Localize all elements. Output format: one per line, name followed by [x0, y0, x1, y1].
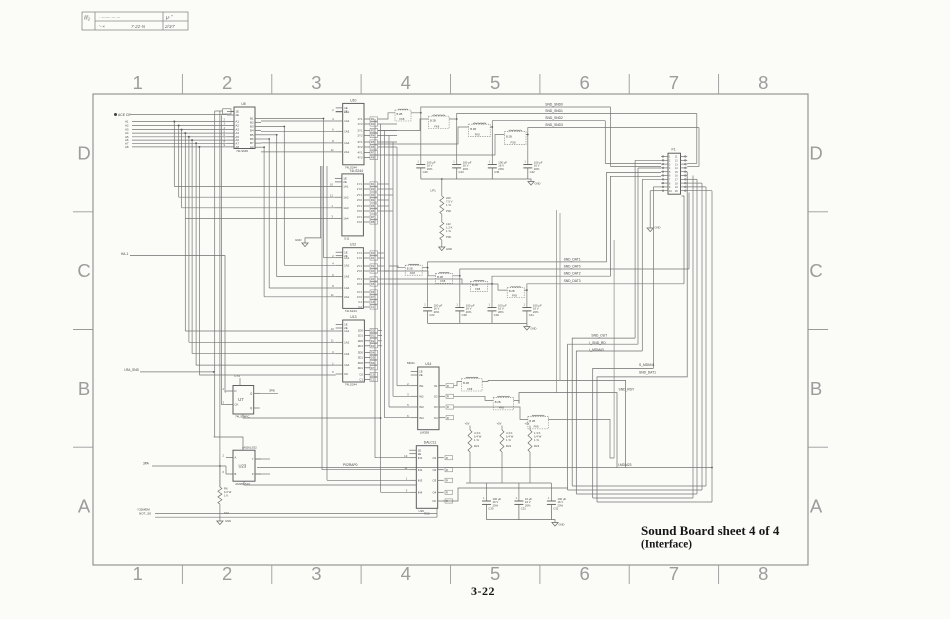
svg-text:2E: 2E: [344, 254, 348, 258]
svg-text:SND_SND0: SND_SND0: [545, 102, 563, 106]
svg-text:O3: O3: [432, 478, 436, 482]
svg-text:GND: GND: [295, 238, 301, 242]
bus staircase junction dots: [173, 121, 200, 148]
capacitor C32: [547, 496, 567, 520]
capacitor C40: [488, 302, 508, 323]
svg-text:1A2: 1A2: [343, 195, 349, 199]
svg-text:1 %: 1 %: [534, 438, 539, 442]
grid column ticks bottom: [182, 565, 718, 584]
svg-text:4D1: 4D1: [358, 366, 364, 370]
svg-text:· –·— ·– ·–: · –·— ·– ·–: [99, 15, 121, 20]
svg-text:LM358: LM358: [420, 430, 430, 434]
svg-text:1 %: 1 %: [446, 203, 451, 207]
svg-text:C31: C31: [521, 507, 527, 511]
wire IC U30 to bottom lines: [436, 508, 438, 517]
svg-text:CK: CK: [432, 499, 436, 503]
svg-text:R4: R4: [371, 134, 375, 138]
svg-text:+5V: +5V: [465, 422, 470, 426]
ground LP1: [439, 247, 445, 251]
resistor in LP1 chain lower: [440, 222, 444, 240]
svg-text:IN1: IN1: [419, 384, 424, 388]
crossing vertical A: [556, 210, 558, 393]
svg-text:SND_SND1: SND_SND1: [545, 109, 563, 113]
wire SND_DAT2 riser: [610, 176, 661, 276]
svg-text:C: C: [809, 260, 822, 281]
svg-text:C26: C26: [423, 170, 429, 174]
svg-text:1A3: 1A3: [344, 129, 350, 133]
svg-text:GND: GND: [535, 182, 541, 186]
wire SND_DAT1 riser: [607, 173, 662, 262]
svg-text:1Y1: 1Y1: [357, 117, 363, 121]
I-RA_SND wire: [140, 371, 214, 373]
ground of middle capacitor rail: [526, 323, 528, 326]
svg-text:SND_OUT: SND_OUT: [591, 333, 607, 337]
middle riser junction dots: [427, 267, 528, 291]
revision block handwriting: [83, 15, 175, 29]
svg-text:O2: O2: [434, 394, 438, 398]
svg-text:B: B: [810, 378, 822, 399]
svg-text:1Y2: 1Y2: [357, 256, 363, 260]
svg-text:4Y2: 4Y2: [357, 220, 363, 224]
svg-text:U23: U23: [239, 463, 247, 468]
svg-text:I_MDM43: I_MDM43: [589, 348, 604, 352]
svg-text:+5V: +5V: [525, 422, 530, 426]
IC U23: [222, 450, 261, 486]
svg-text:B: B: [234, 472, 236, 476]
Y32MEM wire: [155, 513, 437, 515]
output bus verticals: [375, 119, 397, 492]
nested loop 2 left vertical: [637, 168, 639, 344]
IC U30 bottom wire: [443, 488, 568, 501]
ferrite-bead filter FB8: [507, 287, 524, 298]
svg-text:D1: D1: [371, 256, 375, 260]
svg-text:74LS244: 74LS244: [345, 383, 357, 387]
svg-text:I-RA_SND: I-RA_SND: [124, 368, 140, 372]
top capacitor riser dots: [420, 112, 529, 136]
svg-text:D3: D3: [371, 344, 375, 348]
svg-text:R8: R8: [371, 156, 375, 160]
wire SND_SND3 drop: [698, 128, 700, 167]
IC U12: [331, 243, 370, 313]
ferrite-bead filter FB7: [471, 280, 488, 291]
svg-text:I-MDM23: I-MDM23: [618, 463, 632, 467]
svg-text:LP1: LP1: [431, 189, 437, 193]
ferrite-bead filter FB10: [493, 396, 514, 410]
svg-text:A: A: [78, 496, 91, 517]
svg-text:C22: C22: [429, 313, 435, 317]
svg-text:MR11: MR11: [407, 361, 415, 365]
resistor trio bottom rail: [466, 482, 551, 484]
svg-text:1A4: 1A4: [344, 286, 350, 290]
capacitor C41: [522, 302, 542, 323]
svg-text:11: 11: [331, 293, 334, 297]
svg-text:U13: U13: [350, 315, 356, 319]
svg-text:A8: A8: [125, 145, 129, 149]
svg-text:1A2: 1A2: [344, 119, 350, 123]
ferrite-bead filter FB9: [462, 377, 483, 391]
IC DALC11: [404, 441, 444, 513]
svg-text:D2: D2: [371, 339, 375, 343]
capacitor C30: [482, 496, 502, 520]
ground stub near IC column: [305, 166, 321, 243]
svg-text:SND_DAT2: SND_DAT2: [564, 272, 581, 276]
right loop vertical from pin 20: [711, 191, 713, 502]
U7 right output wire: [254, 392, 278, 394]
svg-text:A8: A8: [235, 145, 239, 149]
svg-text:R: R: [447, 395, 449, 399]
top filter inputs: [378, 113, 505, 155]
svg-text:1A3: 1A3: [344, 352, 350, 356]
top filter outputs to SND_SND lines: [411, 107, 699, 135]
svg-text:13: 13: [404, 454, 408, 458]
U7 top pin: [239, 378, 241, 386]
nested loop 3 left vertical: [641, 179, 643, 351]
svg-text:R7: R7: [371, 151, 375, 155]
svg-text:FS8: FS8: [511, 141, 516, 145]
bottom capacitor risers: [487, 483, 552, 501]
svg-text:U11: U11: [344, 237, 350, 241]
svg-text:R1: R1: [371, 117, 375, 121]
svg-text:4: 4: [401, 72, 411, 93]
svg-text:2Y1: 2Y1: [357, 129, 363, 133]
svg-text:B 2B: B 2B: [509, 289, 515, 293]
top capacitor ground rail: [421, 178, 528, 180]
bus staircase drop wires: [174, 122, 199, 376]
svg-text:13: 13: [331, 327, 335, 331]
IC U7: [222, 386, 259, 419]
svg-text:2E: 2E: [344, 326, 348, 330]
svg-text:P02RAP0: P02RAP0: [343, 463, 358, 467]
svg-text:7: 7: [669, 563, 679, 584]
middle filter outputs to SND_DAT lines: [422, 262, 689, 290]
svg-text:3Y1: 3Y1: [357, 140, 363, 144]
svg-text:O4: O4: [434, 416, 438, 420]
long wire y380: [488, 380, 626, 467]
svg-text:R7: R7: [371, 215, 375, 219]
svg-text:B 2B: B 2B: [506, 134, 512, 138]
svg-text:1 %: 1 %: [506, 438, 511, 442]
svg-text:IN2: IN2: [419, 394, 424, 398]
svg-text:SND_RDY: SND_RDY: [619, 388, 636, 392]
U5 to IC3 staircase verticals: [264, 119, 336, 297]
svg-text:C40: C40: [494, 313, 500, 317]
svg-text:D0: D0: [371, 329, 375, 333]
svg-text:1Y2: 1Y2: [357, 187, 363, 191]
svg-text:FK8: FK8: [475, 287, 480, 291]
svg-text:IN4: IN4: [419, 416, 424, 420]
svg-text:1: 1: [133, 563, 143, 584]
svg-text:R: R: [446, 456, 448, 460]
svg-text:C43: C43: [459, 170, 465, 174]
middle filter inputs: [385, 266, 508, 290]
svg-text:R6: R6: [371, 209, 375, 213]
svg-text:2Y1: 2Y1: [357, 193, 363, 197]
wire LP1 middle: [441, 214, 443, 222]
svg-text:4Y1: 4Y1: [357, 290, 363, 294]
nested loop 1 left vertical: [634, 160, 636, 338]
wires to U30 left pins: [322, 458, 409, 493]
capacitor C26: [416, 159, 436, 179]
svg-text:7: 7: [669, 72, 679, 93]
svg-text:SND_DAT0: SND_DAT0: [564, 264, 581, 268]
svg-text:SND_DAT1: SND_DAT1: [639, 371, 656, 375]
grid column ticks top: [182, 74, 718, 94]
svg-text:2Y1: 2Y1: [357, 264, 363, 268]
svg-text:FK8: FK8: [499, 406, 504, 410]
svg-text:1A3: 1A3: [344, 275, 350, 279]
svg-text:C: C: [77, 260, 90, 281]
wires from bus to IC2 left pins: [174, 187, 335, 219]
svg-text:μ·’’: μ·’’: [165, 15, 173, 21]
svg-text:2/3⁄7: 2/3⁄7: [164, 24, 175, 29]
svg-text:D5: D5: [371, 356, 375, 360]
svg-text:3Y2: 3Y2: [357, 145, 363, 149]
svg-text:R6: R6: [371, 145, 375, 149]
connector feeder rail lower right: [687, 166, 699, 168]
svg-text:C1: C1: [359, 378, 363, 382]
wire SND_SND0 drop: [610, 107, 612, 167]
svg-text:C74: C74: [234, 374, 240, 378]
connector feeder rail upper right: [687, 163, 697, 165]
revision title block: [82, 12, 188, 30]
ground below connector: [649, 191, 651, 228]
svg-text:R: R: [447, 405, 449, 409]
svg-text:1: 1: [133, 72, 143, 93]
connector F1: [661, 148, 687, 195]
svg-text:IN2: IN2: [418, 468, 423, 472]
svg-text:11: 11: [331, 148, 334, 152]
svg-text:B 2B: B 2B: [472, 283, 478, 287]
IC U12 output stub labels: [370, 251, 378, 255]
ferrite-bead filter FB11: [528, 415, 549, 429]
nested loop 4 left vertical: [652, 187, 654, 369]
lower filter output wires: [482, 380, 614, 458]
wires from bus to IC4 left pins: [185, 331, 335, 365]
svg-text:6A0: 6A0: [224, 511, 229, 515]
svg-text:P02: P02: [446, 209, 451, 213]
IC U14 output stub resistors: [446, 384, 454, 388]
svg-text:U10: U10: [350, 98, 356, 102]
svg-text:1 %: 1 %: [446, 229, 451, 233]
svg-text:5: 5: [490, 72, 500, 93]
svg-text:7-22-N: 7-22-N: [131, 24, 146, 29]
svg-text:B 2B: B 2B: [495, 400, 501, 404]
U7 lower output wire: [243, 414, 381, 418]
svg-text:6: 6: [579, 72, 589, 93]
svg-text:U12: U12: [350, 243, 356, 247]
right loop vertical mid: [696, 179, 698, 494]
IC U5: [223, 102, 261, 153]
svg-text:’–×: ’–×: [99, 24, 105, 29]
svg-text:74LS244: 74LS244: [345, 309, 357, 313]
svg-text:1Y2: 1Y2: [357, 122, 363, 126]
svg-text:U14: U14: [425, 362, 431, 366]
svg-text:CK: CK: [344, 372, 348, 376]
long horizontal P02RAP0 I-MDM23 line: [257, 467, 712, 469]
U23 top pin wire: [214, 437, 243, 450]
wire SND_SND2 drop: [604, 121, 606, 164]
U23 bottom pin wire: [244, 481, 416, 485]
svg-text:2A1: 2A1: [344, 150, 350, 154]
svg-text:B8: B8: [250, 145, 254, 149]
svg-text:1A2: 1A2: [344, 340, 350, 344]
wires IC outputs to bus verticals: [378, 124, 397, 346]
wire SND_DAT0 riser: [688, 193, 690, 270]
svg-text:1D0: 1D0: [358, 329, 364, 333]
svg-text:2D0: 2D0: [358, 339, 364, 343]
svg-text:D5: D5: [371, 282, 375, 286]
svg-text:C45: C45: [494, 170, 500, 174]
svg-text:S_MDM41: S_MDM41: [639, 363, 655, 367]
svg-text:SND_DAT3: SND_DAT3: [564, 279, 581, 283]
capacitor C42: [523, 159, 543, 179]
HA-1 wire: [130, 256, 226, 392]
IC U13: [331, 315, 371, 387]
svg-text:C42: C42: [530, 170, 536, 174]
svg-text:CK: CK: [371, 300, 375, 304]
grid column numbers top: [133, 72, 769, 93]
svg-text:3Y2: 3Y2: [357, 282, 363, 286]
top capacitor risers: [421, 113, 528, 165]
middle capacitor ground rail: [428, 322, 527, 324]
svg-text:Z: Z: [252, 472, 254, 476]
wires to U14 left pins: [385, 386, 411, 418]
svg-text:D: D: [77, 142, 90, 163]
staircase SND_DAT1: [597, 172, 687, 502]
svg-text:FK8: FK8: [410, 271, 415, 275]
IC U13 output stub labels: [370, 328, 378, 332]
svg-text:1A4: 1A4: [344, 363, 350, 367]
svg-text:2Y2: 2Y2: [357, 134, 363, 138]
svg-text:C30: C30: [488, 507, 494, 511]
U7 left feed wires: [221, 404, 226, 406]
IC U10 output stub labels: [121, 102, 713, 526]
ferrite-bead filter FB4: [505, 130, 527, 145]
svg-text:D: D: [809, 142, 822, 163]
svg-text:2Y2: 2Y2: [357, 198, 363, 202]
svg-text:GND: GND: [559, 523, 565, 527]
svg-text:10: 10: [330, 183, 334, 187]
svg-text:5: 5: [490, 563, 500, 584]
svg-text:DALC11: DALC11: [424, 441, 437, 445]
svg-text:3: 3: [311, 563, 321, 584]
svg-text:D4: D4: [371, 277, 375, 281]
svg-text:3PA: 3PA: [143, 461, 150, 465]
svg-text:C1: C1: [371, 378, 375, 382]
svg-text:1A4: 1A4: [344, 141, 350, 145]
IC 74LS244: [330, 169, 370, 241]
R6 lower wire: [219, 504, 221, 521]
connector left pin wires to loop verticals: [635, 160, 661, 190]
svg-text:11: 11: [330, 193, 333, 197]
IC U10: [331, 98, 370, 169]
3PA wire: [152, 465, 226, 467]
svg-text:SND_SND3: SND_SND3: [545, 123, 563, 127]
wire bus line A8 to IC6 area: [199, 374, 335, 376]
svg-text:B 2B: B 2B: [397, 112, 403, 116]
capacitor C43: [452, 159, 472, 179]
ferrite-bead filter FB6: [436, 272, 453, 283]
IC U11 output stub labels: [370, 182, 378, 186]
svg-text:R: R: [447, 416, 449, 420]
drawing frame border: [93, 94, 808, 565]
svg-text:FK8: FK8: [399, 117, 404, 121]
lower filter input wires: [454, 382, 528, 420]
svg-text:AM26LS32: AM26LS32: [242, 446, 257, 450]
svg-text:C2: C2: [358, 305, 362, 309]
svg-text:O2: O2: [432, 468, 436, 472]
svg-text:1D1: 1D1: [358, 334, 364, 338]
svg-text:D3: D3: [371, 269, 375, 273]
svg-text:B 2B: B 2B: [470, 127, 476, 131]
svg-text:A: A: [234, 456, 236, 460]
svg-text:R: R: [446, 479, 448, 483]
svg-text:GND: GND: [531, 327, 537, 331]
svg-text:O1: O1: [432, 456, 436, 460]
svg-text:R5: R5: [371, 204, 375, 208]
ferrite-bead filter FB3: [469, 123, 491, 137]
svg-text:2Y2: 2Y2: [357, 269, 363, 273]
wire LP1 bottom: [441, 240, 443, 247]
svg-text:D4: D4: [371, 351, 375, 355]
svg-text:4Y2: 4Y2: [357, 295, 363, 299]
svg-text:R1: R1: [371, 182, 375, 186]
svg-text:B: B: [78, 378, 90, 399]
svg-text:3Y1: 3Y1: [357, 204, 363, 208]
svg-text:2: 2: [222, 563, 232, 584]
svg-text:D: D: [234, 389, 236, 393]
svg-text:C32: C32: [553, 507, 559, 511]
R6 top connection wire: [219, 466, 221, 487]
svg-text:R2: R2: [371, 187, 375, 191]
long feeder vertical to U30 pin 2: [321, 166, 323, 470]
middle capacitor risers: [428, 268, 527, 308]
connector feeder rail lower left: [611, 166, 662, 168]
crossing vertical B: [559, 213, 561, 380]
svg-text:P00: P00: [446, 235, 451, 239]
svg-text:GND: GND: [225, 519, 231, 523]
svg-text:IN3: IN3: [418, 478, 423, 482]
svg-text:R3: R3: [371, 193, 375, 197]
svg-text:74LS645: 74LS645: [236, 149, 248, 153]
svg-text:FK8: FK8: [475, 133, 480, 137]
staircase I_SND_RD: [568, 344, 638, 490]
svg-text:ℓℓ₂: ℓℓ₂: [83, 15, 91, 22]
svg-text:2E: 2E: [235, 113, 239, 117]
svg-text:R23: R23: [534, 444, 540, 448]
svg-text:SND_DAT1: SND_DAT1: [564, 257, 581, 261]
svg-text:R4: R4: [371, 198, 375, 202]
left address bus wires: [130, 115, 227, 147]
svg-text:O4: O4: [432, 490, 436, 494]
svg-text:Sound Board sheet 4 of 4: Sound Board sheet 4 of 4: [641, 523, 780, 538]
svg-text:R: R: [446, 491, 448, 495]
svg-text:3-22: 3-22: [471, 584, 495, 598]
svg-text:74LS244: 74LS244: [349, 169, 363, 173]
ground of bottom capacitor rail: [551, 520, 555, 523]
svg-text:4Y2: 4Y2: [357, 156, 363, 160]
capacitor C28: [455, 302, 475, 323]
grid row ticks left and right: [73, 212, 828, 447]
svg-text:CL: CL: [371, 305, 375, 309]
svg-text:2E: 2E: [418, 452, 422, 456]
long feeder vertical to U30 pin 3: [326, 166, 328, 480]
svg-text:8: 8: [758, 72, 768, 93]
staircase I_MDM43: [576, 351, 642, 494]
svg-text:HA-1: HA-1: [121, 252, 128, 256]
bottom capacitor ground rail: [487, 519, 552, 521]
svg-text:U7: U7: [238, 397, 244, 402]
